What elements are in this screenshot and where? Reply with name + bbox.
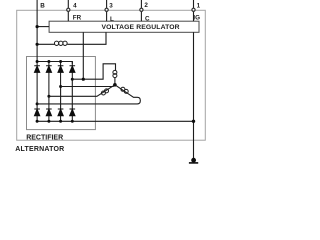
diode D6 bottom	[46, 109, 52, 121]
junction dot phase 4	[71, 78, 74, 81]
wire: pin 3 to regulator L	[106, 11, 108, 21]
svg-text:FR: FR	[73, 15, 82, 22]
wire: pin 4 stub above	[67, 0, 69, 8]
rotor field coil L1	[54, 41, 67, 45]
stator winding left L3	[101, 89, 108, 95]
junction dot phase 2	[47, 95, 50, 98]
wire: phase 1 to stator right	[37, 85, 140, 104]
stator winding top L2	[113, 70, 117, 77]
stator winding right L4	[121, 87, 128, 93]
junction dot sense/phase4	[82, 78, 85, 81]
svg-text:IG: IG	[193, 15, 200, 22]
alternator box	[17, 10, 206, 140]
junction dot rail D1	[36, 60, 39, 63]
wire: phase column 2 mid	[48, 96, 50, 109]
svg-text:VOLTAGE REGULATOR: VOLTAGE REGULATOR	[102, 24, 180, 31]
connector pin 2	[140, 8, 143, 11]
wire: diode anode rail to ground	[37, 120, 193, 122]
diode D8 bottom	[70, 109, 76, 121]
junction dot phase 3	[59, 85, 62, 88]
svg-text:B: B	[40, 3, 45, 10]
wire: phase 2 to stator left	[49, 85, 115, 97]
wire: pin 2 stub above	[140, 0, 142, 8]
wire: phase 3 to neutral	[61, 85, 115, 87]
svg-text:C: C	[145, 16, 150, 23]
diode D2 top	[46, 62, 52, 97]
wire: phase 4 to stator top	[72, 64, 115, 79]
wire: regulator P sense line	[82, 32, 84, 79]
wire: pin 2 to regulator C	[140, 11, 142, 21]
wire: phase column 4 mid	[71, 79, 73, 109]
junction dot node B / field	[36, 43, 39, 46]
junction dot phase 1	[36, 102, 39, 105]
wire: stator top to neutral	[114, 78, 116, 85]
wire: terminal B lead (node B)	[36, 0, 38, 62]
svg-text:3: 3	[109, 2, 113, 9]
wire: pin 1 to regulator IG	[193, 11, 195, 21]
svg-text:2: 2	[144, 2, 148, 9]
junction dot rail D6	[47, 120, 50, 123]
svg-text:RECTIFIER: RECTIFIER	[26, 134, 63, 141]
svg-text:ALTERNATOR: ALTERNATOR	[15, 146, 64, 153]
junction dot rail D5	[36, 120, 39, 123]
junction dot rail D7	[59, 120, 62, 123]
junction dot rail D2	[47, 60, 50, 63]
wire: diode cathode rail (node B+)	[37, 62, 72, 64]
junction dot node B / regulator	[36, 25, 39, 28]
junction dot stator neutral	[113, 83, 117, 87]
diode D7 bottom	[58, 109, 64, 121]
junction dot ground rail	[192, 120, 195, 123]
wire: pin 4 to regulator FR	[67, 11, 69, 21]
diode D4 top	[70, 62, 76, 80]
diode D3 top	[58, 62, 64, 87]
connector pin 4	[67, 8, 70, 11]
wire: regulator E to ground	[193, 32, 195, 158]
diode D1 top	[34, 62, 40, 104]
svg-text:1: 1	[197, 2, 201, 9]
wire: B to regulator	[37, 26, 49, 28]
voltage regulator box U1	[49, 21, 199, 32]
wire: phase column 1 mid	[36, 104, 38, 109]
wire: phase column 3 mid	[60, 87, 62, 110]
svg-text:L: L	[110, 16, 114, 23]
connector pin 3	[105, 8, 108, 11]
wire: field coil to regulator F	[67, 32, 106, 44]
junction dot rail D8	[71, 120, 74, 123]
wire: pin 1 stub above	[193, 0, 195, 8]
rectifier box	[27, 57, 96, 130]
junction dot rail D3	[59, 60, 62, 63]
ground	[189, 158, 198, 163]
wire: pin 3 stub above	[106, 0, 108, 8]
connector pin 1	[192, 8, 195, 11]
diode D5 bottom	[34, 109, 40, 121]
svg-text:4: 4	[73, 3, 77, 10]
wire: field winding feed from B	[37, 43, 54, 45]
